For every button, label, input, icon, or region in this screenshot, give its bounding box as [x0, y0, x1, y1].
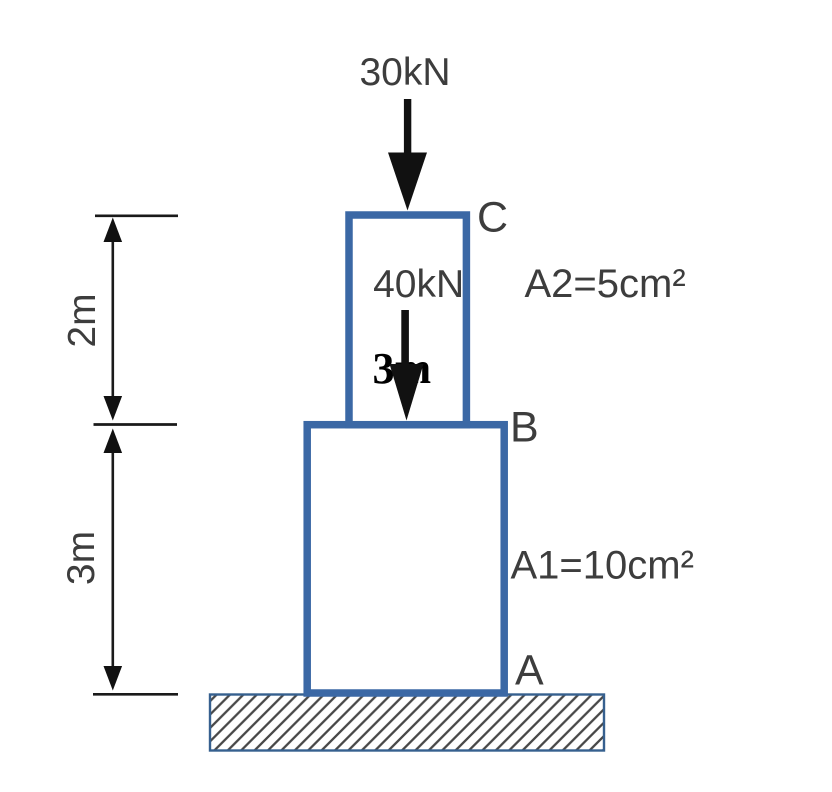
upper bar segment B-C (A2): [349, 215, 466, 425]
force arrow 30kN: [388, 99, 427, 211]
dimension tick top (level C): [95, 214, 178, 217]
svg-text:B: B: [510, 404, 539, 452]
dimension tick bottom (level A): [93, 693, 178, 696]
ground hatched block: [210, 695, 604, 751]
lower bar segment A-B (A1): [307, 425, 504, 693]
dimension tick middle (level B): [94, 423, 178, 426]
svg-text:2m: 2m: [61, 293, 104, 347]
svg-text:A: A: [515, 647, 544, 695]
svg-text:30kN: 30kN: [359, 51, 450, 94]
svg-text:A2=5cm²: A2=5cm²: [525, 262, 686, 306]
svg-text:C: C: [477, 194, 508, 242]
svg-text:A1=10cm²: A1=10cm²: [511, 544, 694, 588]
svg-text:40kN: 40kN: [373, 263, 464, 306]
dimension line 3m (B to A): [104, 429, 123, 691]
svg-text:3m: 3m: [60, 531, 103, 585]
dimension line 2m (C to B): [104, 218, 123, 421]
force arrow 40kN: [390, 310, 424, 421]
